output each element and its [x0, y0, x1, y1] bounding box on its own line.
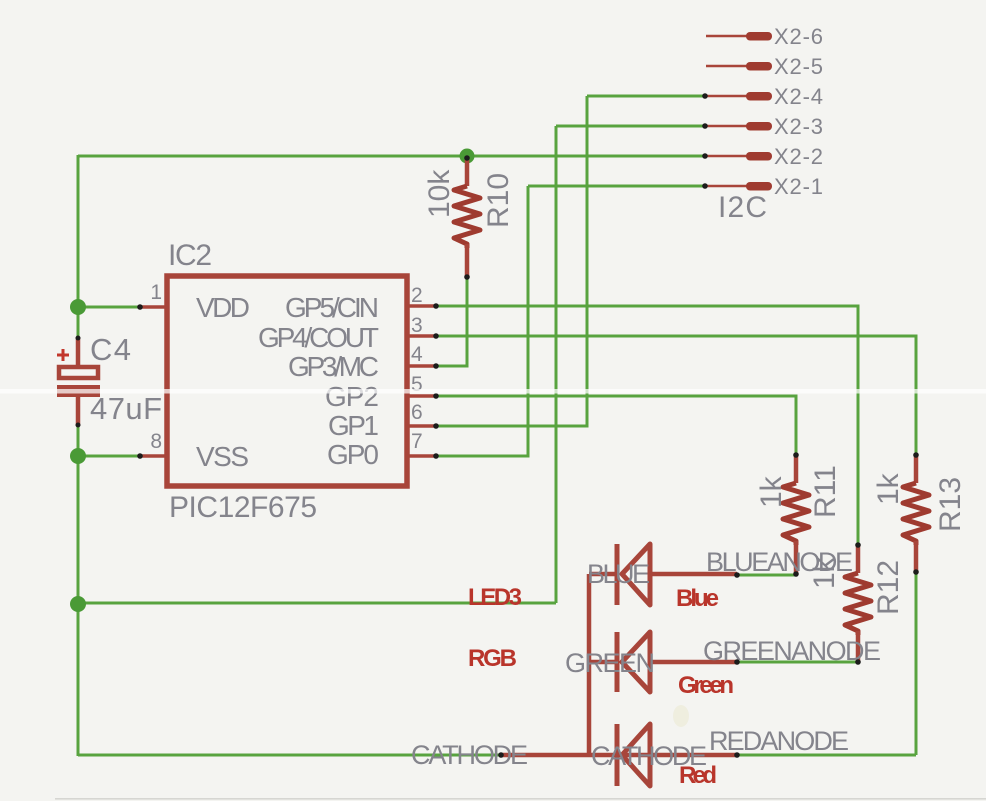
- pin 1 stub: [141, 305, 167, 309]
- wire bottom cathode red segment: [501, 753, 737, 758]
- svg-text:8: 8: [150, 430, 162, 453]
- wire left rail upper segment: [77, 155, 80, 337]
- pin end dot pin8: [137, 453, 143, 459]
- wire GP3 pin4 to R10: [435, 278, 467, 366]
- pin 6 stub: [409, 424, 434, 428]
- svg-text:1k: 1k: [755, 475, 788, 508]
- svg-text:VSS: VSS: [196, 441, 249, 472]
- pin end dot X2-1: [702, 183, 708, 189]
- pin end dot pin4: [433, 363, 439, 369]
- pin end dot green anode: [734, 659, 740, 665]
- pin 8 stub: [141, 454, 167, 458]
- resistor R10: [454, 160, 480, 277]
- connector pin X2-6: [706, 32, 772, 41]
- svg-text:4: 4: [411, 343, 423, 366]
- connector pin X2-1: [704, 182, 772, 191]
- svg-text:6: 6: [411, 401, 423, 424]
- svg-text:X2-2: X2-2: [774, 144, 823, 169]
- pin end dot R11 bottom: [793, 571, 799, 577]
- svg-text:RGB: RGB: [468, 645, 517, 672]
- svg-text:Blue: Blue: [676, 585, 719, 612]
- svg-text:3: 3: [411, 314, 423, 337]
- wire GP0 pin7 to X2-1: [435, 186, 704, 456]
- pin end dot R10 bottom: [464, 274, 470, 280]
- svg-text:GP2: GP2: [325, 381, 379, 412]
- svg-text:X2-6: X2-6: [774, 24, 823, 49]
- pin end dot C4 bottom: [76, 423, 81, 428]
- pin end dot pin2: [433, 303, 439, 309]
- svg-text:Red: Red: [679, 762, 717, 789]
- pin end dot R10 top: [464, 155, 470, 161]
- pin 2 stub: [409, 304, 434, 308]
- smudge: [673, 705, 689, 727]
- wire VDD top rail: [78, 155, 703, 158]
- pin end dot pin6: [433, 423, 439, 429]
- svg-text:BLUE: BLUE: [587, 559, 650, 589]
- capacitor C4: [57, 337, 100, 426]
- svg-text:LED3: LED3: [468, 584, 522, 611]
- pin 3 stub: [409, 334, 434, 338]
- wire GP2 pin5 to R11: [435, 396, 796, 455]
- svg-text:GP0: GP0: [327, 439, 379, 470]
- svg-text:BLUEANODE: BLUEANODE: [706, 547, 853, 577]
- svg-text:10k: 10k: [423, 169, 456, 218]
- pin end dot X2-4: [702, 93, 708, 99]
- svg-text:47uF: 47uF: [90, 391, 162, 426]
- pin end dot R11 top: [793, 452, 799, 458]
- pin end dot R13 top: [913, 452, 919, 458]
- wire LED3 cathode net horizontal: [78, 602, 556, 605]
- svg-text:Green: Green: [678, 672, 734, 699]
- pin 5 stub: [409, 394, 434, 398]
- svg-text:I2C: I2C: [718, 191, 767, 224]
- pin end dot R12 bottom: [855, 659, 861, 665]
- svg-text:R12: R12: [872, 560, 905, 615]
- wire GP4 pin3 to R13: [435, 336, 916, 455]
- wire X2-3 row: [556, 125, 704, 128]
- pin end dot pin5: [433, 393, 439, 399]
- pin end dot X2-3: [702, 123, 708, 129]
- junction VDD / R10: [460, 149, 475, 164]
- junction pin8 C4: [70, 448, 86, 464]
- wire left rail lower segment: [77, 425, 80, 756]
- scanner edge line: [55, 798, 986, 800]
- svg-text:X2-1: X2-1: [774, 174, 823, 199]
- LED blue element of LED3: [589, 544, 737, 605]
- svg-text:REDANODE: REDANODE: [709, 726, 849, 756]
- svg-text:GP3/MC: GP3/MC: [288, 351, 379, 382]
- svg-text:GREENANODE: GREENANODE: [703, 636, 881, 666]
- svg-text:X2-5: X2-5: [774, 54, 823, 79]
- junction LED3 net: [70, 596, 86, 612]
- wire GP1 pin6 to X2-4: [435, 96, 704, 426]
- svg-text:7: 7: [411, 430, 423, 453]
- svg-text:C4: C4: [90, 332, 131, 367]
- pin end dot pin1: [137, 304, 143, 310]
- wire GREENANODE green segment: [737, 661, 858, 664]
- wire BLUEANODE green segment: [737, 574, 796, 577]
- svg-text:R11: R11: [809, 465, 842, 518]
- connector pin X2-2: [704, 152, 772, 161]
- resistor R11: [783, 455, 809, 574]
- junction pin1 C4: [70, 299, 86, 315]
- connector pin X2-3: [704, 122, 772, 131]
- pin end dot C4 top: [76, 336, 81, 341]
- svg-text:GREEN: GREEN: [565, 648, 655, 678]
- pin end dot R12 top: [855, 542, 861, 548]
- svg-text:1: 1: [150, 281, 162, 304]
- svg-text:R10: R10: [482, 173, 515, 228]
- svg-text:CATHODE: CATHODE: [411, 740, 528, 770]
- svg-text:X2-3: X2-3: [774, 114, 823, 139]
- pin end dot red anode: [734, 752, 740, 758]
- pin end dot pin7: [433, 453, 439, 459]
- svg-text:1k: 1k: [872, 472, 905, 505]
- pin 7 stub: [409, 454, 434, 458]
- wire pin8 VSS: [78, 455, 141, 458]
- connector pin X2-4: [704, 92, 772, 101]
- pin end dot blue anode: [734, 572, 740, 578]
- connector pin X2-5: [706, 62, 772, 71]
- wire bottom cathode left: [78, 754, 501, 757]
- paper crease: [0, 389, 986, 394]
- wire R13 bottom vertical: [915, 572, 918, 755]
- svg-text:R13: R13: [934, 477, 967, 532]
- pin end dot R13 bottom: [913, 569, 919, 575]
- svg-text:GP5/CIN: GP5/CIN: [285, 292, 379, 323]
- svg-text:VDD: VDD: [196, 292, 250, 323]
- LED red element of LED3: [617, 724, 650, 786]
- wire GP5 pin2 to R12: [435, 306, 858, 545]
- svg-text:GP1: GP1: [328, 410, 379, 441]
- op IC2 box PIC12F675: [167, 276, 407, 486]
- wire LED cathode bus: [587, 574, 592, 755]
- svg-text:X2-4: X2-4: [774, 84, 823, 109]
- pin 4 stub: [409, 364, 434, 368]
- svg-text:2: 2: [411, 284, 423, 307]
- wire pin1 VDD: [78, 306, 141, 309]
- wire bottom right to R13: [737, 754, 916, 757]
- pin end dot X2-2: [702, 153, 708, 159]
- pin end dot cathode bottom: [498, 752, 504, 758]
- LED green element of LED3: [589, 632, 737, 692]
- resistor R12: [845, 545, 871, 662]
- resistor R13: [903, 455, 929, 572]
- wire X2-3 vertical: [555, 126, 558, 603]
- svg-text:IC2: IC2: [168, 239, 212, 272]
- svg-text:PIC12F675: PIC12F675: [169, 491, 317, 524]
- pin end dot pin3: [433, 333, 439, 339]
- svg-text:GP4/COUT: GP4/COUT: [258, 322, 379, 353]
